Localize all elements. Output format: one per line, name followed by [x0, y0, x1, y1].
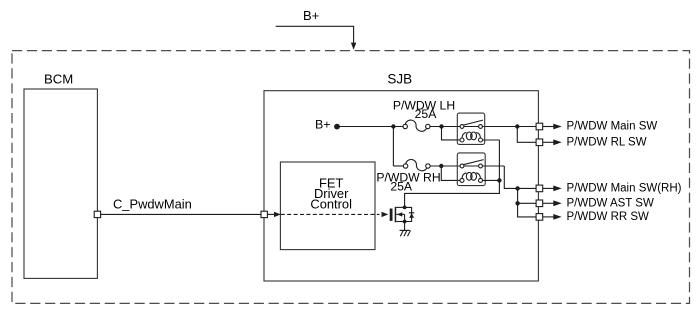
svg-text:SJB: SJB [387, 71, 412, 86]
svg-text:B+: B+ [315, 118, 331, 132]
svg-text:P/WDW RL SW: P/WDW RL SW [567, 136, 647, 148]
svg-text:P/WDW AST SW: P/WDW AST SW [567, 198, 654, 210]
svg-text:P/WDW RR SW: P/WDW RR SW [567, 211, 650, 223]
svg-text:25A: 25A [415, 107, 438, 121]
svg-text:Control: Control [310, 197, 352, 212]
svg-text:P/WDW Main SW: P/WDW Main SW [567, 120, 658, 132]
svg-text:BCM: BCM [44, 71, 73, 86]
svg-text:C_PwdwMain: C_PwdwMain [113, 197, 192, 212]
svg-text:25A: 25A [390, 179, 413, 193]
svg-text:B+: B+ [303, 8, 319, 23]
svg-text:P/WDW Main SW(RH): P/WDW Main SW(RH) [567, 183, 682, 195]
